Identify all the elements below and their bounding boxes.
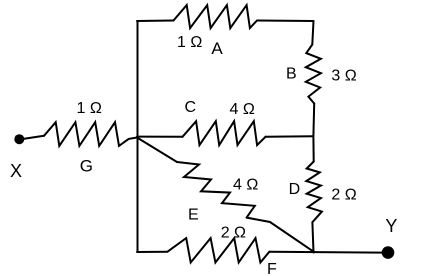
resistor A [174, 5, 258, 28]
svg-text:E: E [188, 207, 199, 224]
wire middle branch left [137, 136, 183, 138]
svg-text:C: C [185, 99, 197, 116]
svg-text:Y: Y [385, 216, 397, 236]
node junction left (G/C/E/rail) [136, 136, 138, 138]
wire bottom left segment [137, 251, 168, 253]
terminal Y [382, 246, 395, 259]
wire diagonal from junction to resistor E [137, 138, 177, 163]
wire right rail top [312, 21, 313, 45]
node bottom junction (D/E/F) [313, 251, 315, 253]
svg-text:4 Ω: 4 Ω [233, 176, 258, 193]
wire left vertical rail [137, 21, 139, 252]
wire right rail middle [312, 104, 315, 162]
svg-text:2 Ω: 2 Ω [331, 186, 356, 203]
wire middle branch right [266, 135, 314, 137]
wire top right segment [257, 20, 314, 23]
wire right rail bottom [312, 222, 313, 252]
wire X to resistor G [23, 136, 45, 139]
svg-text:2 Ω: 2 Ω [221, 224, 246, 241]
svg-text:F: F [267, 261, 277, 276]
resistor F [168, 238, 270, 262]
resistor G [44, 122, 137, 146]
svg-text:D: D [289, 181, 301, 198]
terminal X [14, 134, 24, 144]
wire resistor E to bottom junction [247, 218, 314, 252]
svg-text:1 Ω: 1 Ω [177, 34, 202, 51]
svg-text:B: B [286, 66, 297, 83]
wire bottom right segment [269, 251, 382, 254]
resistor E [177, 162, 255, 218]
svg-text:A: A [211, 39, 223, 58]
svg-text:G: G [80, 157, 93, 176]
wire top left segment [137, 20, 174, 23]
svg-text:1 Ω: 1 Ω [77, 100, 102, 117]
resistor B [306, 45, 321, 104]
svg-text:4 Ω: 4 Ω [230, 101, 255, 118]
svg-text:X: X [10, 161, 22, 181]
resistor D [306, 162, 322, 223]
svg-text:3 Ω: 3 Ω [331, 67, 356, 84]
resistor C [183, 121, 266, 145]
